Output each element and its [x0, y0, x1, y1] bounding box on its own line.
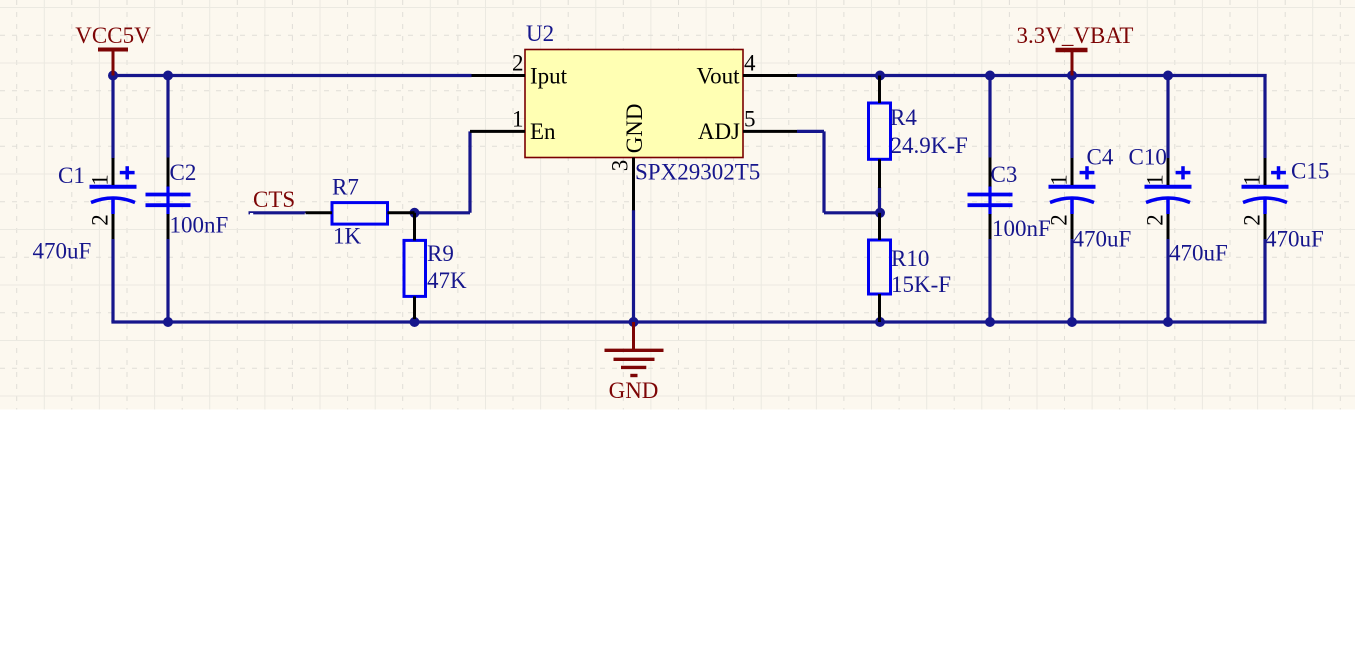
U2 pin 1 lead (En)	[470, 130, 525, 133]
junction node VBAT/C4	[1067, 71, 1077, 81]
wire C4 branch	[1070, 76, 1073, 323]
wire CTS vertex handle right	[305, 213, 308, 216]
wire C1 branch bottom	[111, 239, 114, 322]
wire CTS net stub	[249, 211, 306, 214]
op-amp regulator U2 body SPX29302T5	[525, 50, 743, 158]
svg-text:1K: 1K	[333, 224, 362, 249]
resistor R4 bottom lead	[878, 159, 881, 188]
svg-text:1: 1	[1046, 174, 1071, 186]
capacitor C4 top pin	[1071, 158, 1074, 185]
capacitor C15 positive plate	[1242, 185, 1289, 189]
capacitor C3 top pin	[989, 158, 992, 187]
ground symbol bar 1	[605, 349, 664, 352]
svg-text:3.3V_VBAT: 3.3V_VBAT	[1017, 23, 1134, 48]
junction node C2 bottom	[163, 317, 173, 327]
svg-text:15K-F: 15K-F	[891, 272, 951, 297]
wire C2 branch bottom	[166, 239, 169, 322]
junction node C2 top	[163, 71, 173, 81]
junction node VCC5V/C1	[108, 71, 118, 81]
capacitor C1 plus sign	[120, 166, 135, 179]
resistor R7 right lead	[388, 211, 415, 214]
svg-text:CTS: CTS	[253, 187, 295, 212]
resistor R10 bottom lead	[878, 294, 881, 322]
wire C1 branch top	[111, 74, 114, 159]
capacitor C4 positive plate	[1049, 185, 1096, 189]
svg-text:C2: C2	[170, 160, 197, 185]
svg-text:1: 1	[87, 174, 112, 186]
junction node C3 bottom	[985, 317, 995, 327]
svg-text:GND: GND	[609, 378, 659, 403]
resistor R7 body	[332, 203, 388, 225]
wire R7 to En vertical	[415, 131, 471, 212]
svg-text:100nF: 100nF	[170, 213, 229, 238]
capacitor C2 top pin	[167, 158, 170, 187]
svg-text:470uF: 470uF	[1265, 227, 1324, 252]
capacitor C2 blue stem	[166, 186, 169, 215]
wire top bus left (VCC5V to U2 pin 2)	[113, 74, 472, 77]
junction node C10 bottom	[1163, 317, 1173, 327]
svg-text:R10: R10	[891, 246, 929, 271]
capacitor C4 plus sign	[1080, 166, 1095, 179]
svg-text:R9: R9	[427, 241, 454, 266]
svg-text:R4: R4	[890, 105, 917, 130]
wire C2 branch top	[166, 76, 169, 158]
svg-text:GND: GND	[622, 103, 647, 153]
resistor R9 top lead	[413, 213, 416, 241]
capacitor C1 top pin	[112, 158, 115, 185]
capacitor C10 curved plate	[1146, 198, 1190, 214]
svg-text:470uF: 470uF	[1073, 227, 1132, 252]
ground symbol stem	[632, 322, 635, 350]
svg-text:C3: C3	[991, 162, 1018, 187]
U2 pin 2 lead (Iput)	[472, 74, 526, 77]
capacitor C4 bottom pin	[1071, 214, 1074, 239]
svg-text:ADJ: ADJ	[698, 119, 740, 144]
power port 3.3V_VBAT bar	[1056, 48, 1088, 53]
junction node R4 top	[875, 71, 885, 81]
capacitor C3 plates	[968, 195, 1013, 206]
svg-text:En: En	[530, 119, 556, 144]
junction node R10 bottom	[875, 317, 885, 327]
power port 3.3V_VBAT stem	[1071, 50, 1074, 76]
svg-text:4: 4	[744, 51, 756, 76]
wire R9 bottom lead to bus	[413, 318, 416, 322]
svg-text:470uF: 470uF	[1169, 241, 1228, 266]
svg-text:C4: C4	[1087, 145, 1114, 170]
junction node C3 top	[985, 71, 995, 81]
wire C10 branch	[1166, 76, 1169, 323]
U2 pin 5 lead (ADJ)	[743, 130, 797, 133]
capacitor C10 top pin	[1167, 158, 1170, 185]
capacitor C2 plates	[146, 195, 191, 206]
svg-text:47K: 47K	[427, 268, 467, 293]
capacitor C2 bottom pin	[167, 214, 170, 239]
wire C3 branch	[988, 76, 991, 323]
svg-text:C15: C15	[1291, 159, 1329, 184]
svg-text:VCC5V: VCC5V	[75, 23, 151, 48]
capacitor C4 curved plate	[1050, 198, 1094, 214]
schematic sheet background	[0, 0, 1355, 410]
svg-text:1: 1	[1142, 174, 1167, 186]
svg-text:1: 1	[512, 107, 524, 132]
capacitor C15 curved plate	[1243, 198, 1287, 214]
capacitor C15 bottom pin	[1264, 214, 1267, 239]
ground symbol bar 4	[630, 374, 637, 377]
svg-text:2: 2	[88, 214, 113, 226]
svg-text:24.9K-F: 24.9K-F	[891, 133, 968, 158]
svg-text:Iput: Iput	[530, 64, 568, 89]
capacitor C15 top pin	[1264, 158, 1267, 185]
capacitor C10 positive plate	[1145, 185, 1192, 189]
resistor R9 body	[404, 240, 426, 296]
svg-text:C10: C10	[1129, 145, 1167, 170]
resistor R7 left lead	[306, 211, 333, 214]
svg-text:C1: C1	[58, 163, 85, 188]
wire right rail (C15 branch)	[1263, 74, 1266, 324]
capacitor C3 bottom pin	[989, 214, 992, 239]
wire bottom bus (ground rail)	[111, 320, 1265, 323]
junction node GND	[629, 317, 639, 327]
capacitor C1 bottom pin	[112, 214, 115, 239]
svg-text:2: 2	[1240, 214, 1265, 226]
capacitor C3 blue stem	[988, 186, 991, 215]
svg-text:2: 2	[512, 51, 524, 76]
power port VCC5V bar	[98, 48, 128, 52]
wire R4 bottom lead to node	[878, 187, 881, 213]
junction node R4/R10/ADJ	[875, 208, 885, 218]
resistor R10 top lead	[878, 213, 881, 240]
svg-text:U2: U2	[526, 21, 554, 46]
capacitor C10 bottom pin	[1167, 214, 1170, 239]
svg-text:2: 2	[1047, 214, 1072, 226]
svg-text:R7: R7	[332, 175, 359, 200]
resistor R10 body	[869, 240, 891, 294]
U2 pin 3 lead (GND)	[632, 158, 635, 211]
ground symbol bar 3	[621, 366, 646, 369]
junction node C10 top	[1163, 71, 1173, 81]
junction node R7/R9/En	[410, 208, 420, 218]
svg-text:100nF: 100nF	[992, 216, 1051, 241]
junction node R9 bottom	[410, 317, 420, 327]
wire ADJ to R4/R10 node	[797, 131, 880, 212]
capacitor C1 curved plate	[91, 198, 135, 214]
resistor R4 body	[869, 103, 891, 159]
svg-text:470uF: 470uF	[33, 239, 92, 264]
wire top bus right (U2 pin 4 to right rail)	[797, 74, 1267, 77]
capacitor C10 plus sign	[1176, 166, 1191, 179]
svg-text:5: 5	[744, 107, 756, 132]
wire U2 pin3 to ground bus	[632, 210, 635, 322]
svg-text:SPX29302T5: SPX29302T5	[635, 160, 760, 185]
svg-text:3: 3	[607, 160, 632, 172]
capacitor C15 plus sign	[1271, 166, 1286, 179]
ground symbol bar 2	[614, 358, 655, 361]
power port VCC5V stem	[112, 50, 115, 76]
svg-text:2: 2	[1143, 214, 1168, 226]
resistor R9 bottom lead	[413, 296, 416, 319]
wire CTS vertex handle left	[250, 213, 253, 216]
svg-text:Vout: Vout	[696, 64, 740, 89]
svg-text:1: 1	[1239, 174, 1264, 186]
junction node C4 bottom	[1067, 317, 1077, 327]
resistor R4 top lead	[878, 76, 881, 104]
U2 pin 4 lead (Vout)	[743, 74, 797, 77]
capacitor C1 positive plate	[90, 185, 137, 189]
